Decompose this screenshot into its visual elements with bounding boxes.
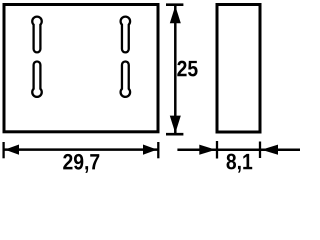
dimension 8,1: right arrow [261,145,278,155]
dimension 29,7: left arrow [5,145,19,155]
dimension 25: label [177,61,197,77]
side view plate outline [217,5,260,133]
dimension 8,1: left arrow [199,145,215,155]
dimension 25: bottom tick [166,133,183,136]
keyhole slot top-left [32,17,42,53]
dimension 29,7: horizontal line [4,148,159,151]
dimension 8,1: line [177,148,300,151]
dimension 8,1: label [227,154,253,173]
dimension 29,7: label [63,154,99,173]
front view plate outline [4,5,158,132]
dimension 25: bottom arrow [170,116,181,134]
dimension 25: top arrow [170,6,181,24]
dimension 8,1: left tick [216,141,218,159]
dimension 25: top tick [166,3,183,6]
dimension 25: vertical line [174,5,177,135]
keyhole slot top-right [121,17,131,53]
keyhole slot bottom-right [121,62,131,97]
dimension 8,1: right tick [259,142,261,159]
dimension 29,7: left tick [2,142,4,158]
dimension 29,7: right tick [157,142,159,158]
dimension 29,7: right arrow [143,145,157,155]
keyhole slot bottom-left [32,62,42,97]
